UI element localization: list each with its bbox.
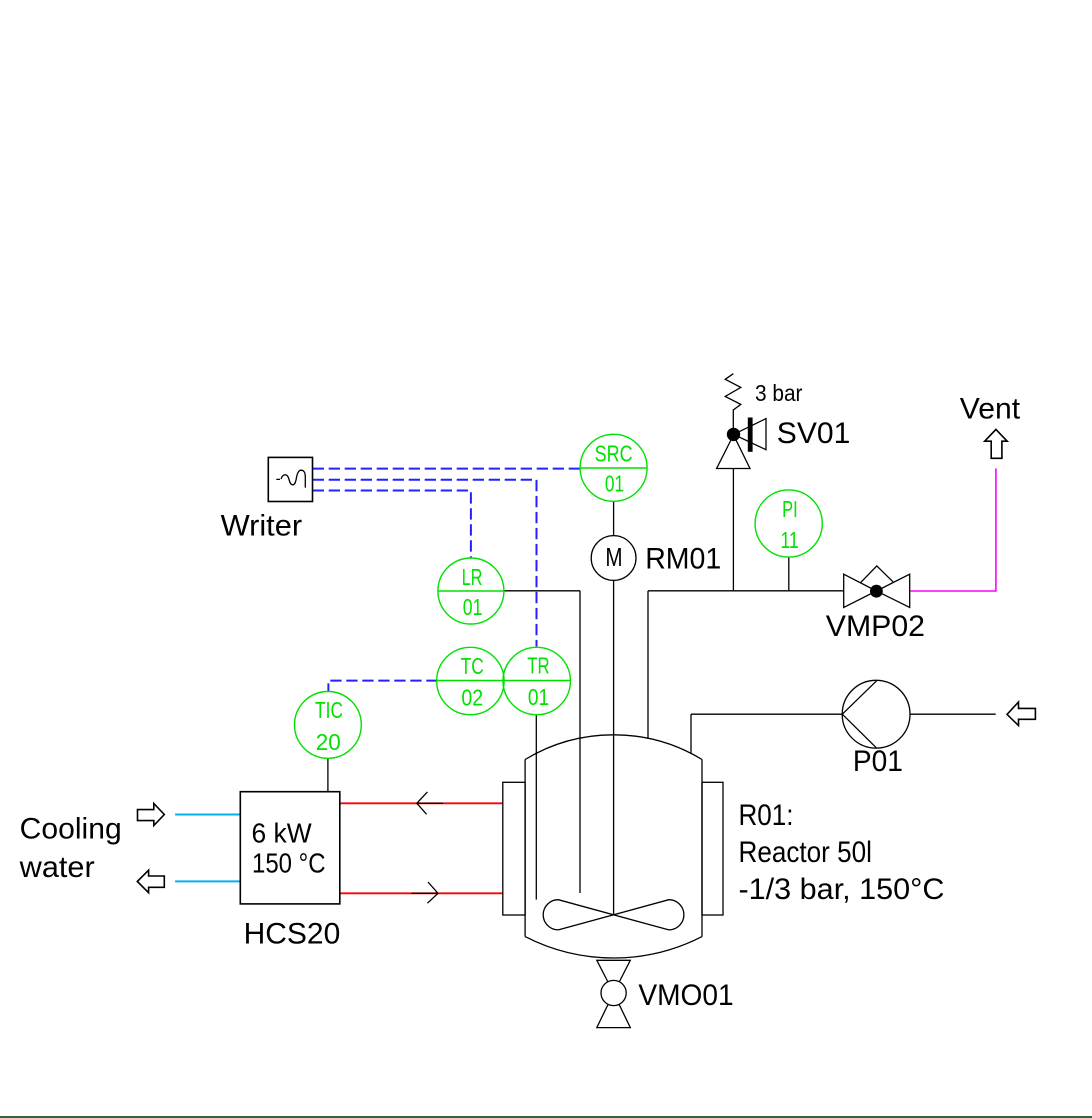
svg-text:VMP02: VMP02 — [826, 610, 925, 643]
svg-text:PI: PI — [782, 496, 798, 522]
svg-text:-1/3 bar, 150°C: -1/3 bar, 150°C — [739, 873, 945, 906]
svg-text:20: 20 — [316, 729, 341, 755]
svg-text:Writer: Writer — [221, 510, 303, 543]
svg-text:Cooling: Cooling — [20, 812, 122, 845]
svg-text:TC: TC — [461, 653, 484, 679]
svg-text:TIC: TIC — [315, 697, 343, 723]
svg-text:HCS20: HCS20 — [244, 918, 341, 951]
svg-text:11: 11 — [780, 527, 798, 553]
svg-text:LR: LR — [462, 564, 483, 590]
svg-text:SRC: SRC — [595, 440, 633, 466]
svg-text:SV01: SV01 — [777, 417, 851, 450]
svg-text:01: 01 — [605, 470, 624, 496]
svg-text:01: 01 — [528, 684, 549, 710]
svg-text:150 °C: 150 °C — [252, 847, 326, 878]
svg-text:Vent: Vent — [960, 392, 1021, 425]
svg-text:P01: P01 — [853, 745, 903, 778]
svg-text:6 kW: 6 kW — [252, 817, 313, 848]
svg-text:01: 01 — [463, 594, 483, 620]
svg-text:TR: TR — [527, 653, 549, 679]
svg-text:R01:: R01: — [739, 799, 794, 832]
svg-text:RM01: RM01 — [645, 542, 721, 575]
svg-text:02: 02 — [461, 685, 483, 711]
svg-text:Reactor 50l: Reactor 50l — [739, 836, 872, 869]
svg-text:M: M — [605, 542, 622, 572]
svg-text:VMO01: VMO01 — [638, 979, 733, 1012]
svg-text:3 bar: 3 bar — [755, 380, 803, 406]
svg-text:water: water — [19, 851, 95, 884]
